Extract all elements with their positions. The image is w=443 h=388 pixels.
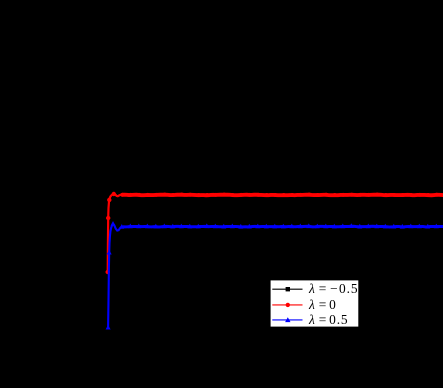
axes (black, invisible on black background) [88,0,443,345]
legend entry 3 line [272,319,302,321]
legend entry 3 triangle marker [285,317,290,322]
legend entry 2 circle marker [286,303,290,307]
legend entry 1 square marker [286,287,290,291]
black curve (lambda=-0.5, invisible on black background) [108,164,443,241]
svg-text:λ=0: λ=0 [308,297,336,312]
red curve rise [108,194,122,272]
red curve markers [106,192,439,274]
blue curve rise [108,224,123,328]
legend entry 1 line [272,288,302,290]
blue curve plateau [123,225,443,229]
legend entry 2 line [272,304,302,306]
legend box [270,280,359,327]
blue curve markers [106,221,439,330]
svg-text:λ=0.5: λ=0.5 [308,312,349,327]
red curve plateau [122,193,443,198]
